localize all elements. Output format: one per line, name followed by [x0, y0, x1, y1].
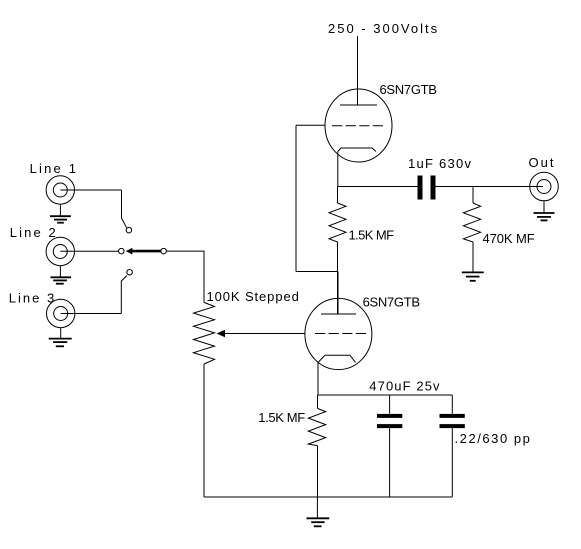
- resistor R2 470K MF: [472, 187, 474, 204]
- switch SW1 blade: [132, 250, 161, 253]
- switch SW1 contact 1: [126, 227, 132, 233]
- wire wiper to U2 grid: [225, 333, 305, 335]
- wire J2 to switch pole: [60, 250, 118, 252]
- tube U2 grid (dashed): [315, 333, 366, 335]
- tube U1 cathode: [338, 148, 376, 152]
- jack J2 Line 2: [46, 237, 74, 265]
- tube U1 grid (dashed): [332, 125, 383, 127]
- ground R2: [462, 271, 484, 273]
- wire J1 to switch: [60, 189, 121, 191]
- capacitor C1 1uF 630v: [418, 176, 423, 200]
- tube U1 plate: [340, 104, 377, 106]
- svg-text:Line 3: Line 3: [9, 291, 56, 306]
- wire U2 cathode lead: [317, 363, 319, 396]
- jack J3 Line 3: [47, 299, 75, 327]
- wire U1 grid lead: [296, 124, 325, 126]
- wire switch common to pot: [166, 251, 204, 302]
- resistor R4 1.5K MF lower: [317, 395, 319, 408]
- svg-text:.22/630 pp: .22/630 pp: [455, 431, 532, 446]
- wire J3 to switch: [61, 313, 122, 315]
- wire cathode node to coupling cap: [338, 186, 418, 188]
- switch SW1 common terminal: [161, 248, 167, 254]
- capacitor C3 .22/630 pp: [451, 395, 453, 414]
- ground J2: [59, 266, 61, 277]
- tube U2 6SN7GTB lower envelope: [305, 298, 372, 369]
- switch SW1 contact 3: [127, 269, 133, 275]
- wire grid feedback vertical: [295, 125, 297, 271]
- wire bottom bus: [204, 496, 452, 498]
- svg-text:470uF 25v: 470uF 25v: [369, 379, 440, 394]
- jack J1 Line 1: [46, 176, 74, 204]
- wire U1 cathode lead: [337, 152, 339, 187]
- resistor R1 1.5K MF upper: [337, 187, 339, 204]
- ground J3: [60, 328, 62, 339]
- svg-text:100K Stepped: 100K Stepped: [207, 289, 300, 304]
- switch SW1 wiper arrow: [126, 248, 133, 255]
- wire cap to output: [436, 186, 544, 188]
- tube U2 plate: [321, 313, 356, 315]
- jack J4 Out: [530, 172, 559, 201]
- potentiometer R3 100K Stepped: [194, 302, 215, 364]
- ground J1: [59, 204, 61, 216]
- svg-text:470K MF: 470K MF: [483, 231, 535, 246]
- wire cathode bus: [318, 394, 452, 396]
- svg-text:Line 1: Line 1: [30, 161, 79, 176]
- svg-text:1.5K MF: 1.5K MF: [349, 228, 395, 243]
- svg-text:Line 2: Line 2: [10, 225, 58, 240]
- wire B+ lead to upper plate: [357, 36, 359, 105]
- switch SW1 contact 1 riser: [122, 190, 127, 228]
- wire feedback bottom horizontal: [296, 271, 338, 273]
- svg-text:6SN7GTB: 6SN7GTB: [380, 82, 437, 97]
- ground J4: [543, 201, 545, 213]
- switch SW1 contact 3 riser: [121, 276, 127, 314]
- wiper arrow of R3: [217, 330, 226, 337]
- svg-text:6SN7GTB: 6SN7GTB: [363, 295, 420, 310]
- svg-text:Out: Out: [529, 155, 556, 170]
- switch SW1 pole contact 2: [119, 248, 125, 254]
- svg-text:250 - 300Volts: 250 - 300Volts: [328, 21, 439, 36]
- capacitor C2 470uF 25v: [389, 395, 391, 414]
- wire U2 plate lead: [337, 272, 339, 315]
- ground main: [316, 497, 318, 518]
- svg-text:1uF 630v: 1uF 630v: [408, 156, 472, 171]
- svg-text:1.5K MF: 1.5K MF: [258, 410, 305, 425]
- tube U2 cathode: [318, 355, 356, 362]
- tube U1 6SN7GTB upper envelope: [325, 89, 392, 162]
